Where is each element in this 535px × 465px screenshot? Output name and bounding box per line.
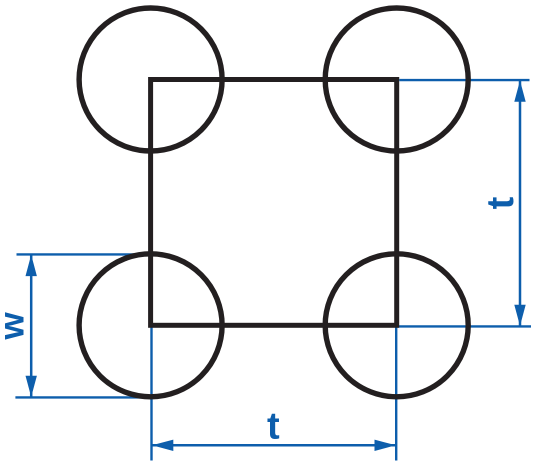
extension line bottom-right bbox=[395, 326, 397, 461]
hole circle bottom-right bbox=[325, 254, 468, 397]
dimension line t bottom bbox=[152, 444, 396, 447]
arrow up w-dim bbox=[26, 255, 37, 276]
pitch square bbox=[151, 80, 397, 326]
arrow left bottom-dim bbox=[152, 440, 173, 451]
hole circle top-right bbox=[325, 8, 468, 151]
arrow up right-dim bbox=[514, 81, 525, 102]
svg-text:t: t bbox=[267, 406, 280, 448]
arrow right bottom-dim bbox=[375, 440, 396, 451]
dimension line t right bbox=[519, 81, 522, 326]
extension line w-bottom bbox=[15, 396, 146, 398]
extension line w-top bbox=[17, 253, 141, 255]
hole circle top-left bbox=[79, 8, 222, 151]
hole circle bottom-left bbox=[79, 254, 222, 397]
extension line right-top bbox=[399, 79, 529, 81]
dimension line w left bbox=[30, 255, 33, 397]
extension line right-bottom bbox=[397, 325, 531, 327]
svg-text:t: t bbox=[480, 196, 522, 209]
svg-text:w: w bbox=[0, 312, 31, 341]
arrow down right-dim bbox=[514, 305, 525, 326]
extension line bottom-left bbox=[150, 326, 152, 461]
arrow down w-dim bbox=[26, 376, 37, 397]
